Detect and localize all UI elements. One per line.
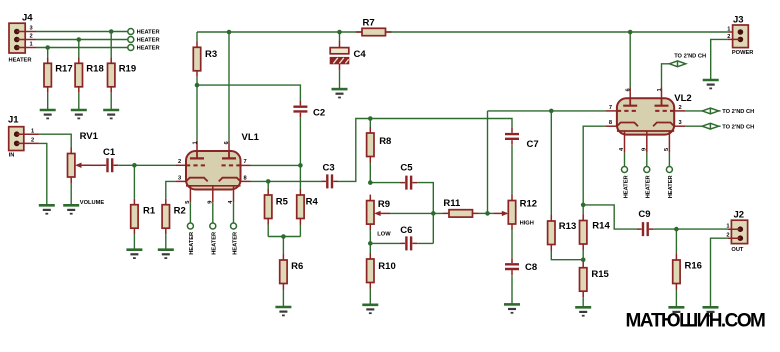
junction R16	[674, 227, 679, 232]
wire to R15	[582, 260, 584, 262]
svg-text:5: 5	[664, 148, 670, 151]
svg-text:1: 1	[727, 27, 730, 33]
wire VL2 pin8 stub	[606, 125, 617, 127]
wire down to R13	[550, 111, 552, 215]
svg-text:POWER: POWER	[732, 50, 754, 56]
wire junction up to VL2 grid rail	[487, 111, 489, 213]
potentiometer RV1	[68, 131, 105, 206]
svg-text:HEATER: HEATER	[137, 46, 160, 52]
wire VL1 pin7	[251, 164, 301, 166]
svg-text:VL1: VL1	[242, 132, 260, 143]
svg-text:TO 2'ND CH: TO 2'ND CH	[674, 54, 706, 60]
wire J1 pin2 to ground	[39, 143, 47, 205]
wire VL1 pin3 stub	[176, 180, 186, 182]
wire R3 node to C2	[197, 85, 300, 101]
svg-text:2: 2	[679, 105, 682, 111]
wire rail to C7	[506, 119, 512, 129]
svg-text:6: 6	[224, 141, 230, 144]
svg-text:R3: R3	[205, 49, 217, 60]
junction C1/R1/VL1 pin2	[132, 163, 137, 168]
wire B+ rail	[197, 31, 728, 33]
wire J2 pin2 to ground	[711, 238, 728, 307]
wire to VL1 pin1	[196, 85, 198, 141]
svg-text:R9: R9	[378, 199, 390, 210]
svg-text:HEATER: HEATER	[623, 175, 629, 198]
wire R3 to node	[196, 77, 198, 85]
wire R10 to ground	[369, 289, 371, 305]
wire C5 right down	[417, 183, 433, 244]
wire node to C5	[370, 182, 400, 184]
wire to VL2 pin7	[488, 110, 607, 112]
ground R10	[362, 305, 378, 313]
wire VL1 pin1 stub	[196, 141, 198, 151]
wire C9 to J2	[654, 228, 728, 230]
wire to R10	[369, 243, 371, 253]
svg-text:7: 7	[244, 159, 247, 165]
junction heater2/R18	[77, 37, 82, 42]
resistor R10	[367, 253, 396, 289]
svg-text:J2: J2	[734, 210, 745, 221]
svg-text:R14: R14	[592, 221, 610, 232]
wire R4 to bottom node	[299, 225, 301, 237]
junction rail / VL1 pin6	[227, 30, 232, 35]
svg-text:HEATER: HEATER	[9, 58, 32, 64]
wire C4 to ground	[339, 71, 341, 89]
wire VL1 pin7 stub	[241, 164, 251, 166]
wire rail to VL2 pin6	[629, 32, 631, 88]
junction R14/R15/R13	[581, 257, 586, 262]
svg-text:2: 2	[178, 159, 181, 165]
svg-text:МАТЮШИН.COM: МАТЮШИН.COM	[626, 311, 766, 332]
svg-text:TO 2'ND CH: TO 2'ND CH	[722, 109, 754, 115]
capacitor C3	[321, 162, 338, 188]
svg-text:HEATER: HEATER	[137, 38, 160, 44]
wire R13 bottom to R15 node	[551, 251, 583, 260]
resistor R18	[75, 57, 104, 93]
wire C2 to VL1 pin7 node	[299, 117, 301, 165]
svg-text:J1: J1	[8, 115, 19, 126]
wire R8 to node	[369, 163, 371, 183]
resistor R19	[108, 57, 137, 93]
junction heater1/R17	[45, 45, 50, 50]
wire J3 pin2 to ground	[711, 39, 728, 80]
resistor R2	[162, 199, 186, 235]
wire R11 out	[479, 212, 495, 214]
junction R13 top	[549, 109, 554, 114]
resistor R3	[193, 41, 217, 77]
ground R2	[158, 250, 174, 258]
svg-text:R10: R10	[378, 261, 395, 272]
resistor R5	[265, 189, 289, 225]
wire J2 pin stubs	[728, 229, 741, 238]
svg-text:R7: R7	[363, 17, 375, 28]
svg-text:C3: C3	[323, 162, 335, 173]
wire J1 pin1 to RV1	[39, 134, 71, 147]
svg-text:HEATER: HEATER	[137, 30, 160, 36]
svg-text:R5: R5	[276, 196, 289, 207]
wire to R18	[78, 40, 80, 58]
svg-text:C7: C7	[527, 139, 539, 150]
svg-text:R12: R12	[520, 198, 537, 209]
ground C8	[504, 304, 520, 312]
capacitor C2	[293, 101, 325, 119]
svg-text:C9: C9	[638, 209, 650, 220]
resistor R15	[580, 262, 610, 298]
junction rail / VL2 pin6	[628, 30, 633, 35]
junction R8 top	[368, 116, 373, 121]
junction C9 branch	[581, 203, 586, 208]
tube VL2 (dual triode)	[617, 93, 692, 153]
resistor R17	[44, 57, 73, 93]
resistor R14	[580, 215, 611, 251]
wire VL1 pin8 stub	[241, 180, 251, 182]
wire R18 to ground	[78, 93, 80, 110]
connector J1 IN	[8, 115, 34, 159]
svg-text:C6: C6	[400, 225, 412, 236]
connector J4 HEATER	[9, 12, 34, 63]
svg-text:R1: R1	[143, 205, 156, 216]
wire R6 to ground	[282, 290, 284, 308]
svg-text:OUT: OUT	[731, 247, 744, 253]
svg-text:7: 7	[609, 105, 612, 111]
wire rail to R3	[196, 32, 198, 41]
resistor R7	[356, 17, 392, 35]
wire pin8 down	[583, 126, 606, 205]
capacitor C8	[505, 258, 537, 275]
wire pin3 to R2	[166, 181, 176, 198]
resistor R6	[280, 254, 304, 290]
wire J3 pin2 stub	[728, 38, 741, 40]
junction heater3/R19	[109, 29, 114, 34]
wire VL2 pin1 stub	[661, 88, 663, 99]
to-2nd-channel flag top	[669, 61, 685, 67]
heater terminal circles	[128, 29, 134, 35]
svg-text:1: 1	[192, 141, 198, 144]
potentiometer R12	[508, 195, 537, 231]
resistor R11	[443, 198, 479, 217]
ground R1	[126, 250, 142, 258]
wire R5-R4 bottom	[268, 236, 300, 238]
wire flag3 tail	[719, 125, 721, 127]
resistor R16	[673, 254, 702, 290]
wire R17 to ground	[47, 93, 49, 110]
svg-text:IN: IN	[9, 153, 15, 159]
svg-text:HEATER: HEATER	[212, 232, 218, 255]
connector J2 OUT	[726, 210, 747, 254]
svg-text:R17: R17	[55, 64, 72, 75]
VL2 heater leads	[625, 153, 670, 167]
svg-text:HEATER: HEATER	[668, 175, 674, 198]
wire R16 to ground	[675, 290, 677, 308]
wire rail to C4	[339, 32, 341, 41]
junction R9/C6/R10	[368, 241, 373, 246]
wire R19 to ground	[110, 93, 112, 110]
wire J4 pin stubs	[17, 32, 36, 48]
wire pin8 to C3	[251, 180, 322, 182]
resistor R8	[367, 127, 392, 163]
capacitor C4	[330, 41, 366, 71]
svg-text:C4: C4	[354, 49, 367, 60]
svg-text:R11: R11	[443, 198, 461, 209]
ground R18	[71, 110, 87, 118]
wire RV1 wiper to C1	[90, 164, 102, 166]
to-2nd-channel flag pin2	[702, 108, 718, 114]
wire VL1 pin2 stub	[176, 164, 186, 166]
wire to C9	[583, 205, 637, 229]
junction R8/C5/R9	[368, 180, 373, 185]
svg-text:R15: R15	[591, 269, 609, 280]
capacitor C7	[505, 128, 539, 150]
svg-text:R19: R19	[119, 64, 136, 75]
wire VL2 pin2 stub	[674, 110, 685, 112]
svg-text:9: 9	[642, 148, 648, 151]
wire C7 to R12	[511, 145, 513, 195]
wire to R17	[47, 48, 49, 58]
ground R16	[668, 307, 684, 315]
wire pin3 to flag	[685, 125, 702, 127]
wire J1 pin stubs	[17, 134, 39, 143]
wire to R6	[282, 237, 284, 255]
wire J3 pin1 stub	[728, 31, 741, 33]
wire down to C6 right	[417, 242, 433, 244]
wire R2 to ground	[165, 234, 167, 250]
ground J2	[703, 307, 719, 315]
svg-text:3: 3	[679, 120, 682, 126]
wire C3 to R8/C7 rail	[338, 119, 506, 182]
wire C1 to VL1 grid	[118, 164, 176, 166]
wire to R5	[267, 181, 269, 189]
svg-text:3: 3	[178, 175, 181, 181]
capacitor C1	[102, 147, 119, 172]
ground J3	[703, 80, 719, 88]
svg-text:VL2: VL2	[674, 93, 691, 104]
wire VL2 pin1 to 2nd ch	[662, 64, 670, 88]
svg-text:HEATER: HEATER	[646, 175, 652, 198]
svg-text:R6: R6	[291, 261, 303, 272]
svg-text:TO 2'ND CH: TO 2'ND CH	[722, 125, 754, 131]
svg-text:R16: R16	[685, 261, 702, 272]
wire to R19	[110, 32, 112, 58]
wire to R8	[369, 119, 371, 128]
to-2nd-channel flag pin3	[702, 123, 718, 129]
junction R3/C2/VL1 pin1	[195, 83, 200, 88]
svg-text:C8: C8	[525, 262, 537, 273]
wire heater 3	[36, 31, 128, 33]
ground J1	[39, 205, 55, 213]
wire R9 to node	[369, 230, 371, 243]
junction C2/VL1 pin7/R4	[298, 163, 303, 168]
capacitor C5	[400, 163, 417, 190]
svg-text:HIGH: HIGH	[520, 220, 534, 226]
svg-text:R2: R2	[174, 205, 186, 216]
junction R6	[281, 234, 286, 239]
svg-text:VOLUME: VOLUME	[80, 200, 105, 206]
wire pin2 to flag	[685, 110, 702, 112]
connector J3 POWER	[727, 14, 753, 56]
svg-text:R4: R4	[306, 196, 319, 207]
wire R12 to C8	[511, 230, 513, 258]
ground R6	[275, 307, 291, 315]
ground RV1	[63, 205, 79, 213]
capacitor C6	[400, 225, 417, 250]
wiper arrow into R12	[494, 212, 507, 214]
wire node to R4	[299, 165, 301, 189]
svg-text:C1: C1	[103, 147, 116, 158]
wire VL2 pin7 stub	[606, 110, 617, 112]
capacitor C9	[637, 209, 654, 236]
svg-text:RV1: RV1	[80, 131, 99, 142]
wire VL1 pin6 stub	[228, 141, 230, 151]
svg-text:J4: J4	[22, 12, 33, 23]
svg-text:HEATER: HEATER	[232, 232, 238, 255]
wire node to C6	[370, 242, 400, 244]
potentiometer R9	[367, 195, 392, 238]
wire to R14	[582, 205, 584, 215]
svg-text:8: 8	[244, 175, 247, 181]
wire R5 down	[267, 225, 269, 237]
svg-text:J3: J3	[733, 14, 744, 25]
wire heater 2	[36, 39, 128, 41]
svg-text:LOW: LOW	[377, 231, 391, 237]
svg-text:8: 8	[609, 120, 612, 126]
wire to R1	[133, 165, 135, 198]
wire VL2 pin3 stub	[674, 125, 685, 127]
wire R14 to node	[582, 250, 584, 260]
ground R15	[575, 307, 591, 315]
ground R17	[40, 110, 56, 118]
ground C4	[332, 89, 348, 97]
tube VL1 (dual triode)	[186, 132, 260, 202]
resistor R1	[131, 199, 156, 235]
wire R1 to ground	[133, 234, 135, 250]
junction pin8/R5	[266, 179, 271, 184]
junction R11/feedback	[485, 211, 490, 216]
junction rail / C4	[337, 30, 342, 35]
junction C5-C6/wiper	[431, 211, 436, 216]
resistor R13	[548, 215, 577, 251]
wire heater 1	[36, 47, 128, 49]
svg-text:HEATER: HEATER	[189, 232, 195, 255]
svg-text:C5: C5	[400, 163, 413, 174]
ground R19	[103, 110, 119, 118]
wire RV1 to ground	[70, 183, 72, 205]
wire flag2 tail	[719, 110, 721, 112]
wire VL2 pin6 stub	[629, 88, 631, 99]
wire R9 wiper to R11	[390, 212, 443, 214]
wire R15 to ground	[582, 297, 584, 307]
VL1 heater leads	[190, 202, 233, 223]
svg-text:C2: C2	[313, 108, 325, 119]
wire rail to VL1 pin6	[228, 32, 230, 141]
svg-text:R13: R13	[559, 221, 576, 232]
svg-text:R18: R18	[86, 64, 103, 75]
svg-text:R8: R8	[379, 136, 391, 147]
wire to R16	[675, 229, 677, 254]
wire C8 to ground	[511, 275, 513, 304]
resistor R4	[297, 189, 319, 225]
